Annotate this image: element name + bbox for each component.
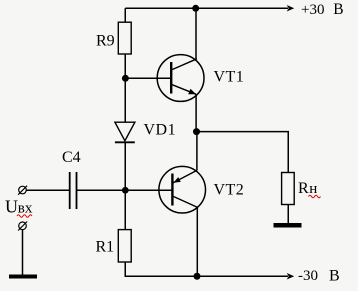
- node C (output node): [193, 128, 200, 135]
- diode VD1: [115, 122, 135, 142]
- wire R1 bottom to bottom rail: [125, 262, 288, 276]
- wire lower terminal to ground: [22, 230, 24, 275]
- arrowhead -30V: [287, 273, 295, 280]
- svg-text:U: U: [5, 197, 18, 217]
- node junction top rail / VT1 collector: [192, 5, 199, 12]
- svg-text:VT1: VT1: [214, 69, 245, 86]
- svg-text:R9: R9: [96, 33, 115, 50]
- wire C4 to node B and VT2 base: [77, 189, 173, 191]
- svg-text:н: н: [309, 181, 317, 197]
- wire VT1 emitter down to node C: [195, 94, 197, 131]
- spellcheck squiggle under н: [309, 195, 321, 198]
- wire R9 bottom to node A: [124, 54, 126, 78]
- arrowhead +30V: [287, 5, 295, 12]
- node junction bottom rail / VT2 collector: [194, 273, 201, 280]
- node B (input node): [122, 187, 129, 194]
- input terminal upper: [18, 186, 27, 195]
- arrow VT2 emitter: [173, 177, 180, 183]
- svg-text:C4: C4: [62, 149, 81, 166]
- wire Rн to ground: [287, 205, 289, 224]
- wire VT1 collector up to rail: [195, 8, 197, 59]
- resistor R9: [118, 22, 131, 54]
- resistor R1: [118, 230, 131, 262]
- capacitor C4: [70, 172, 77, 209]
- svg-text:-30: -30: [298, 268, 318, 284]
- svg-text:вх: вх: [18, 201, 33, 217]
- svg-text:R1: R1: [96, 239, 115, 256]
- wire node B down to R1: [124, 190, 126, 230]
- ground (Rн): [274, 223, 302, 228]
- svg-text:В: В: [333, 1, 343, 18]
- wire node A down to VD1 anode: [124, 78, 126, 122]
- wire top rail +30V: [125, 7, 288, 9]
- node A (VT1 base / divider top): [122, 75, 129, 82]
- svg-text:VT2: VT2: [214, 182, 245, 199]
- resistor Rн: [282, 173, 295, 205]
- transistor VT2 (PNP): [159, 166, 206, 213]
- svg-text:VD1: VD1: [144, 122, 177, 139]
- input terminal lower: [18, 222, 27, 231]
- wire node C to VT2 emitter: [196, 132, 198, 171]
- wire node A to VT1 base: [125, 77, 171, 79]
- svg-text:В: В: [329, 268, 340, 285]
- svg-text:R: R: [298, 180, 309, 197]
- wire VT2 collector down to bottom rail: [196, 207, 198, 276]
- arrow VT1 emitter: [188, 89, 196, 95]
- ground (input): [9, 275, 37, 279]
- svg-text:+30: +30: [301, 2, 324, 18]
- wire terminal to C4: [26, 189, 69, 191]
- spellcheck squiggle under вх: [17, 215, 32, 218]
- transistor VT1 (NPN): [157, 55, 204, 102]
- wire VD1 cathode to node B: [124, 142, 126, 190]
- wire rail corner down to R9: [124, 8, 126, 22]
- wire node C to Rн: [197, 132, 289, 173]
